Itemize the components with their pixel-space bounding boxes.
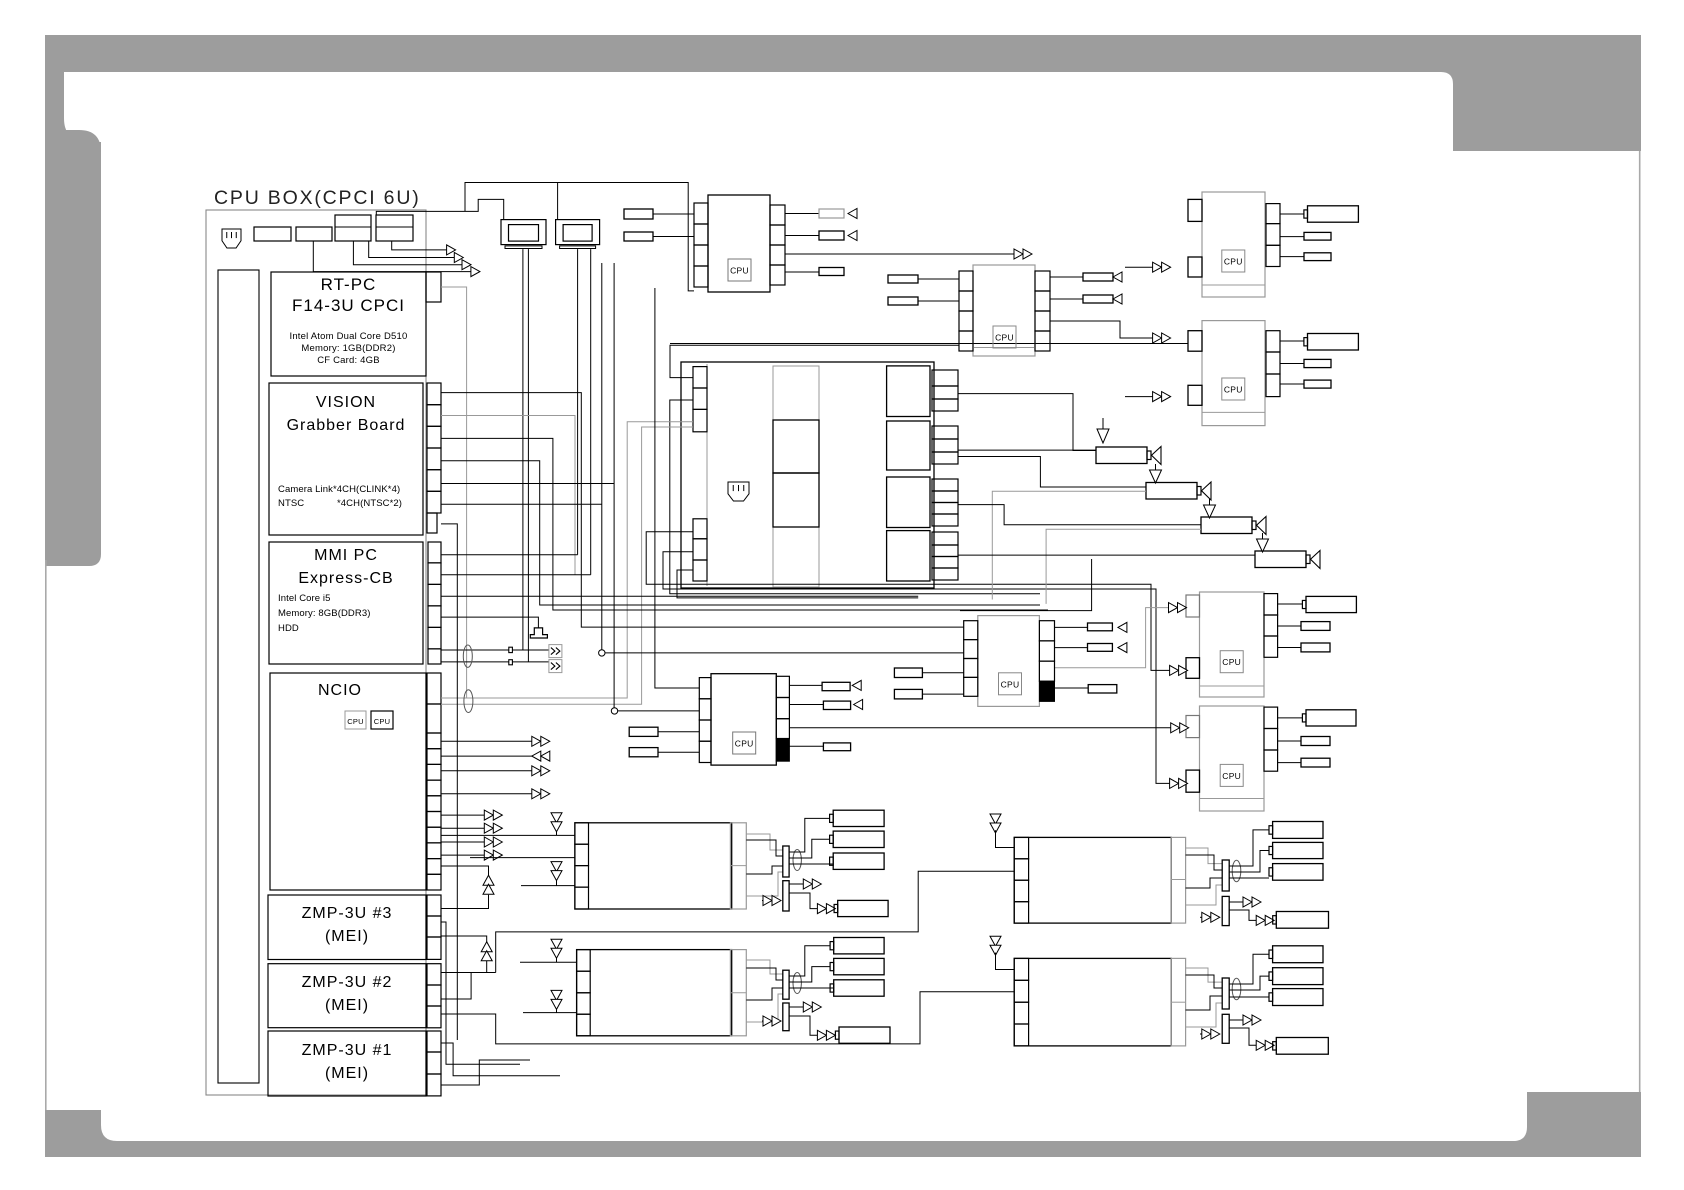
module E body xyxy=(1200,592,1265,697)
module D out plug3 xyxy=(1280,383,1304,385)
module H feed node wire xyxy=(618,710,700,712)
wire J2b arrow row3 xyxy=(353,241,462,265)
module H body xyxy=(711,674,776,765)
BL1 antenna 1 xyxy=(551,813,562,823)
BL1 vbar 1 xyxy=(783,846,789,877)
chevron connector 1 xyxy=(549,645,562,658)
bus gray net 1 xyxy=(441,422,693,698)
ZMP wire v2 xyxy=(441,1043,560,1076)
svg-text:(MEI): (MEI) xyxy=(325,928,369,945)
module C CPU label xyxy=(1222,250,1245,272)
NCIO CPU1 label xyxy=(345,711,366,729)
module D input arrows 1 xyxy=(1153,333,1162,343)
module B CPU label xyxy=(993,326,1016,348)
svg-text:CPU: CPU xyxy=(735,739,754,749)
BR2 bar2 out arrow xyxy=(1229,1019,1252,1021)
BL2 plug wires xyxy=(789,946,830,976)
frame bottom-right gray block xyxy=(1527,1092,1641,1157)
module F input wire long xyxy=(789,727,1170,729)
MMI wire 4 with inline fuse xyxy=(441,661,549,663)
module D body xyxy=(1202,321,1265,426)
BL2 antenna 2 xyxy=(551,990,562,1000)
VISION wire 1 to module G xyxy=(441,393,964,627)
central box mid cell 3 xyxy=(773,473,819,527)
svg-text:CPU: CPU xyxy=(1224,257,1243,267)
svg-text:ZMP-3U #2: ZMP-3U #2 xyxy=(302,974,393,991)
camera 3 down arrow xyxy=(1209,499,1211,505)
module G left column xyxy=(964,621,978,640)
frame left gray tab xyxy=(45,130,101,566)
central right square 3 xyxy=(887,477,930,528)
bus gray net 2 xyxy=(441,427,693,704)
frame left thin border xyxy=(45,560,47,1115)
camera 2 down arrow xyxy=(1155,464,1157,470)
monitor2 cable wires xyxy=(577,249,579,555)
VISION connector column xyxy=(427,383,441,405)
camera 1 down arrow xyxy=(1102,418,1104,429)
BL2 left column xyxy=(577,950,591,972)
module G out plug4 xyxy=(1055,687,1089,689)
BR1 vbar 2 xyxy=(1222,896,1229,925)
camera 3 xyxy=(1201,517,1252,534)
bus central bottom 4 xyxy=(677,570,918,598)
BL1 plug 4 xyxy=(838,900,888,916)
BL1 right wire bundle xyxy=(746,834,783,850)
node circle 1 xyxy=(601,263,603,650)
camera 2 xyxy=(1146,483,1197,500)
module D CPU label xyxy=(1222,378,1245,400)
BL1 right gray column xyxy=(730,823,746,909)
svg-text:Intel Core i5: Intel Core i5 xyxy=(278,593,331,604)
svg-text:Camera Link*4CH(CLINK*4): Camera Link*4CH(CLINK*4) xyxy=(278,484,400,495)
BR2 box xyxy=(1014,958,1171,1046)
frame bottom gray band xyxy=(45,1141,1641,1157)
svg-text:*4CH(NTSC*2): *4CH(NTSC*2) xyxy=(337,498,402,509)
ground symbol xyxy=(530,628,547,638)
svg-text:HDD: HDD xyxy=(278,623,299,634)
BR2 plug 1 xyxy=(1273,946,1323,963)
wire J3 arrow row2 xyxy=(369,241,455,258)
module B out plug2 xyxy=(1050,298,1083,300)
module A plug in2 xyxy=(624,232,653,241)
MMI cable loop ellipse xyxy=(463,645,472,667)
top connector J2 xyxy=(296,227,332,241)
module A out plug2 xyxy=(785,235,819,237)
module H CPU label xyxy=(733,732,756,754)
module E left conn 2 xyxy=(1186,658,1200,679)
module F CPU label xyxy=(1220,764,1243,786)
arrow stagger 3 xyxy=(462,260,471,270)
svg-text:ZMP-3U #3: ZMP-3U #3 xyxy=(302,905,393,922)
BL2 antenna 1 xyxy=(551,939,562,949)
monitor1 cable wires xyxy=(522,249,524,650)
module H left column xyxy=(699,678,711,699)
BR2 antenna xyxy=(990,936,1001,946)
svg-text:F14-3U CPCI: F14-3U CPCI xyxy=(292,296,405,315)
power inlet central xyxy=(728,482,749,501)
svg-text:MMI PC: MMI PC xyxy=(314,547,378,564)
module H right black cell xyxy=(776,739,789,762)
BR2 bar2 in arrow xyxy=(1200,1033,1211,1035)
board MMI PC xyxy=(269,542,423,664)
board VISION Grabber xyxy=(269,383,423,535)
ZMP1 connector column xyxy=(427,1031,441,1052)
MMI wire 2 xyxy=(441,595,918,597)
central right square 1 xyxy=(887,366,930,417)
NCIO short arrow 3 xyxy=(441,841,484,843)
BL1 plug wires xyxy=(789,818,830,852)
ZMP2 connector column xyxy=(427,964,441,985)
power inlet CPU BOX xyxy=(222,229,241,248)
module G right column xyxy=(1039,621,1054,641)
svg-text:(MEI): (MEI) xyxy=(325,1065,369,1082)
NCIO short arrow 1 xyxy=(441,814,484,816)
frame top-right gray block xyxy=(1453,35,1641,151)
BL1 bar2 in arrow xyxy=(762,900,772,902)
module A out plug1 xyxy=(785,213,819,215)
module B left column xyxy=(959,271,973,291)
svg-text:CPU: CPU xyxy=(1224,385,1243,395)
BR2 plug 4 xyxy=(1276,1038,1328,1055)
backplane bar xyxy=(218,270,259,1083)
wire upper bus to module D xyxy=(670,343,1188,345)
wire J2 arrow row1 xyxy=(392,241,448,250)
module E right column xyxy=(1264,594,1278,615)
NCIO gray loop ellipse xyxy=(464,690,473,713)
wire J4 to monitors xyxy=(376,199,503,219)
central right connector cells g3 xyxy=(932,479,958,491)
BL1 plug 2 xyxy=(833,831,884,847)
NCIO up arrows 2 xyxy=(441,960,487,972)
BR2 ellipse xyxy=(1232,978,1241,999)
BL2 plug 1 xyxy=(834,938,884,954)
BR1 bar2 in arrow xyxy=(1200,916,1211,918)
central box outline xyxy=(681,362,934,588)
BR1 right wire bundle xyxy=(1186,848,1223,864)
module G plug in1 xyxy=(894,668,922,678)
BL2 antenna 2 wire xyxy=(523,1012,577,1014)
BL1 box xyxy=(575,823,732,909)
frame right thin border xyxy=(1639,151,1641,1092)
BL1 plug 3 xyxy=(833,853,884,869)
module A CPU label xyxy=(728,259,751,281)
VISION wire 2 gray xyxy=(441,416,575,575)
module B wire to module D xyxy=(1050,321,1153,338)
camera 1 xyxy=(1096,447,1147,464)
BL2 plug 3 xyxy=(834,980,884,996)
module G out plug1 xyxy=(1055,626,1088,628)
BL1 plug 1 xyxy=(833,810,884,826)
central right connector cells g1 xyxy=(932,370,958,386)
NCIO connector column xyxy=(427,673,441,704)
wire J1 arrow row4 xyxy=(313,241,471,272)
module D input arrows 2 xyxy=(1125,396,1153,398)
module C left conn 1 xyxy=(1188,199,1202,221)
arrow stagger 2 xyxy=(454,253,463,263)
NCIO up arrows 1 xyxy=(441,895,489,909)
VISION wire 3 xyxy=(441,438,1048,610)
frame page top-left corner neck xyxy=(45,72,101,160)
BR1 bar2 out arrow xyxy=(1229,901,1252,903)
module E input gray path xyxy=(1055,608,1169,668)
BL1 antenna 2 xyxy=(551,862,562,872)
monitor 1 xyxy=(501,220,546,245)
ZMP wire to bus1 xyxy=(441,973,496,1000)
top connector J4 xyxy=(376,215,413,241)
svg-text:RT-PC: RT-PC xyxy=(321,275,377,294)
svg-text:CPU: CPU xyxy=(1222,771,1241,781)
camera 4 wires xyxy=(958,554,1255,556)
BR1 left column xyxy=(1014,837,1028,858)
module E out plug long xyxy=(1278,603,1302,605)
BR1 plug 2 xyxy=(1273,842,1323,858)
module B right column xyxy=(1035,271,1050,291)
svg-text:Memory: 1GB(DDR2): Memory: 1GB(DDR2) xyxy=(301,343,395,354)
MMI wire 0 xyxy=(441,554,578,556)
BR2 right gray column xyxy=(1171,958,1185,1046)
module C body xyxy=(1202,192,1265,297)
svg-text:(MEI): (MEI) xyxy=(325,997,369,1014)
module F out plug long xyxy=(1278,717,1302,719)
central right connector cells g4 xyxy=(932,532,958,545)
module C input stub wire xyxy=(1125,266,1153,268)
BL1 vbar 2 xyxy=(783,881,789,911)
ZMP wire v1 xyxy=(441,922,520,1064)
module F input arrows 2 xyxy=(1170,778,1179,788)
top connector J1 xyxy=(254,227,291,241)
bus central bottom 2 xyxy=(663,552,1170,784)
VISION wire 5 xyxy=(441,483,614,485)
module B body xyxy=(973,265,1035,356)
board ZMP-3U #3 xyxy=(268,895,426,960)
BR1 plug 1 xyxy=(1273,822,1323,839)
bus central bottom 3 xyxy=(670,400,1040,594)
board RT-PC xyxy=(271,272,426,376)
arrow stagger 1 xyxy=(447,245,456,255)
module F left conn 1 xyxy=(1186,716,1200,738)
BR2 left column xyxy=(1014,958,1028,980)
MMI connector column xyxy=(428,542,441,563)
BL2 antenna 1 wire xyxy=(520,961,577,963)
module C out plug2 xyxy=(1280,236,1304,238)
camera 1 wires xyxy=(958,394,1096,451)
NCIO arrow wire 3 xyxy=(441,770,532,772)
BR1 box xyxy=(1014,837,1171,923)
MMI ground wire xyxy=(441,617,538,628)
module D out plug long xyxy=(1280,340,1304,342)
BL2 bar2 to plug4 xyxy=(789,1016,817,1035)
BL2 vbar 1 xyxy=(783,970,789,999)
svg-text:Grabber Board: Grabber Board xyxy=(287,417,406,434)
ZMP wire v3 xyxy=(441,1060,530,1085)
VISION wire 7 xyxy=(441,524,457,1040)
board ZMP-3U #1 xyxy=(268,1031,426,1096)
BL2 plug 4 xyxy=(839,1027,890,1043)
svg-text:CPU: CPU xyxy=(730,266,749,276)
module G out plug2 xyxy=(1055,647,1088,649)
BL2 right gray column xyxy=(730,950,746,1036)
VISION wire 4 xyxy=(441,461,1040,605)
camera 4 xyxy=(1255,551,1306,568)
module G CPU label xyxy=(999,673,1022,695)
BL1 bar2 out arrow xyxy=(789,883,812,885)
central right connector cells g2 xyxy=(932,426,958,439)
module H out plug4 xyxy=(789,745,823,747)
node circle 2 xyxy=(613,263,615,708)
svg-text:CPU: CPU xyxy=(995,333,1014,343)
module H feed wire 1 xyxy=(655,288,699,688)
CPU BOX outline xyxy=(206,210,426,1095)
NCIO short arrow 4 xyxy=(441,854,484,856)
svg-text:CPU: CPU xyxy=(1001,679,1020,689)
svg-text:CPU: CPU xyxy=(1222,657,1241,667)
module C out plug long xyxy=(1280,213,1304,215)
wire monitor2 drop xyxy=(557,183,559,220)
BR2 bar2 to plug4 xyxy=(1229,1028,1256,1045)
BR1 right gray column xyxy=(1171,837,1185,923)
BR2 plug wires xyxy=(1229,954,1269,984)
BR1 plug 4 xyxy=(1276,912,1328,929)
module H out plug2 xyxy=(789,704,823,706)
svg-text:VISION: VISION xyxy=(316,394,376,411)
top connector J3 xyxy=(335,215,371,241)
module E out plug2 xyxy=(1278,625,1301,627)
module A plug in1 xyxy=(624,209,653,219)
bus central bottom 1 xyxy=(646,532,1169,671)
MMI wire 3 with inline fuse xyxy=(441,649,549,651)
BL1 bar2 to plug4 xyxy=(789,893,817,909)
module B out plug1 xyxy=(1050,276,1083,278)
BR1 plug wires xyxy=(1229,830,1269,866)
ZMP3 connector column xyxy=(427,895,441,916)
module A body xyxy=(708,195,770,292)
svg-text:ZMP-3U #1: ZMP-3U #1 xyxy=(302,1042,393,1059)
module D right column xyxy=(1266,331,1280,352)
module H out plug1 xyxy=(789,684,822,686)
module F left conn 2 xyxy=(1186,770,1200,792)
BL1 left column xyxy=(575,823,589,844)
module A right column xyxy=(770,205,785,225)
NCIO arrow wire 2 left xyxy=(441,755,550,757)
board ZMP-3U #2 xyxy=(268,964,426,1028)
wire module B feed 1 xyxy=(670,345,959,377)
module H plug in2 xyxy=(629,748,658,757)
module H right column xyxy=(776,676,789,697)
frame bottom-left gray block xyxy=(45,1110,117,1141)
svg-text:Memory: 8GB(DDR3): Memory: 8GB(DDR3) xyxy=(278,608,371,619)
module E out plug3 xyxy=(1278,647,1301,649)
BL2 plug 2 xyxy=(834,958,884,974)
svg-text:CPU: CPU xyxy=(347,717,363,726)
module C input arrows xyxy=(1153,262,1162,272)
BR2 right wire bundle xyxy=(1186,968,1223,982)
central box left column bottom cells xyxy=(693,519,707,539)
module D left conn 1 xyxy=(1188,331,1202,352)
svg-text:Express-CB: Express-CB xyxy=(298,570,393,587)
svg-text:CPU: CPU xyxy=(374,717,390,726)
BL2 right wire bundle xyxy=(746,960,783,974)
svg-text:Intel Atom Dual Core D510: Intel Atom Dual Core D510 xyxy=(289,331,407,342)
module E left conn 1 xyxy=(1186,595,1200,617)
BL2 ellipse xyxy=(793,973,801,994)
wire top bus to module A xyxy=(465,183,694,291)
camera 3 wires xyxy=(958,505,1201,525)
BR1 plug 3 xyxy=(1273,864,1323,881)
module G plug in2 xyxy=(894,689,922,699)
module H plug in1 xyxy=(629,727,658,736)
NCIO short arrow 2 xyxy=(441,827,484,829)
BR1 vbar 1 xyxy=(1222,860,1229,891)
module G body xyxy=(978,616,1040,707)
central right square 4 xyxy=(887,531,930,581)
chevron connector 2 xyxy=(549,660,562,673)
central box mid column xyxy=(773,366,819,587)
BR1 bar2 to plug4 xyxy=(1229,910,1256,920)
module D out plug2 xyxy=(1280,363,1304,365)
camera 2 wires xyxy=(958,457,1146,488)
svg-text:NTSC: NTSC xyxy=(278,498,304,509)
camera 4 down arrow xyxy=(1262,533,1264,539)
module F out plug2 xyxy=(1278,740,1301,742)
svg-text:CPU BOX(CPCI 6U): CPU BOX(CPCI 6U) xyxy=(214,187,421,209)
monitor 2 xyxy=(556,220,600,245)
RT-PC right connector xyxy=(426,272,441,302)
BR1 antenna xyxy=(990,814,1001,824)
BL2 bar2 in arrow xyxy=(762,1020,772,1022)
BL1 antenna 2 wire xyxy=(521,885,575,887)
central box inner divider xyxy=(706,364,708,586)
wire RT-PC gray down xyxy=(441,287,467,698)
module C left conn 2 xyxy=(1188,257,1202,277)
svg-text:NCIO: NCIO xyxy=(318,682,362,699)
BR2 vbar 2 xyxy=(1222,1014,1229,1043)
antenna wire BL1 a xyxy=(470,834,575,836)
ZMP wire h1 xyxy=(441,834,470,836)
board NCIO xyxy=(270,673,426,890)
module B plug in1 xyxy=(888,275,918,283)
ZMP bus to BR2 xyxy=(441,992,1014,1044)
module G right black cell xyxy=(1039,681,1054,701)
module A out plug3 xyxy=(785,271,819,273)
central box mid cell 2 xyxy=(773,420,819,473)
BL2 box xyxy=(577,950,732,1036)
module B plug in2 xyxy=(888,297,918,305)
BL2 bar2 out arrow xyxy=(789,1006,812,1008)
frame top gray band xyxy=(45,35,1641,72)
module C out plug3 xyxy=(1280,256,1304,258)
central right square 2 xyxy=(887,421,930,470)
svg-text:CF Card: 4GB: CF Card: 4GB xyxy=(317,355,380,366)
VISION wire 6 xyxy=(441,503,602,505)
module A long wire arrows xyxy=(785,253,1014,255)
BL2 vbar 2 xyxy=(783,1003,789,1031)
module F right column xyxy=(1264,707,1278,728)
BR2 plug 2 xyxy=(1273,968,1323,985)
arrow stagger 4 xyxy=(471,267,480,277)
BR2 plug 3 xyxy=(1273,989,1323,1006)
module D left conn 2 xyxy=(1188,385,1202,405)
BL1 cell2 wire xyxy=(470,857,575,859)
NCIO arrow wire 1 xyxy=(441,740,532,742)
BR1 ellipse xyxy=(1232,860,1241,881)
MMI wire 1 xyxy=(441,574,591,576)
module E CPU label xyxy=(1220,651,1243,673)
BR2 vbar 1 xyxy=(1222,978,1229,1009)
BL1 ellipse xyxy=(793,850,801,871)
NCIO arrow wire 4 xyxy=(441,793,532,795)
central box left column top cells xyxy=(693,367,707,388)
module F body xyxy=(1200,706,1265,811)
